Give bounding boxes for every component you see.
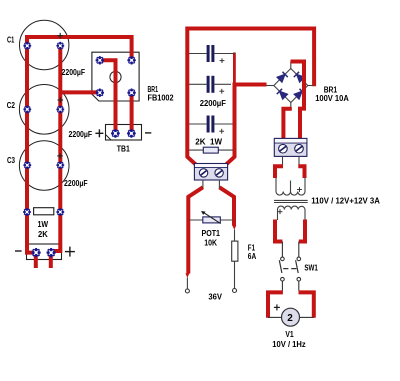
transformer T1 primary xyxy=(276,178,305,196)
svg-text:POT1: POT1 xyxy=(202,229,221,238)
wire: meter left elbow xyxy=(268,292,283,317)
fuse F1 body xyxy=(232,241,238,261)
pad C3 left xyxy=(23,161,31,169)
pad TB1 right xyxy=(127,129,136,138)
svg-text:SW1: SW1 xyxy=(304,263,318,272)
thin wires to switch xyxy=(281,242,283,258)
switch levers xyxy=(279,260,282,273)
svg-text:2200µF: 2200µF xyxy=(69,130,93,139)
polarity + secondary xyxy=(278,209,283,214)
wire tip left xyxy=(185,273,189,277)
terminal block TB1 outline xyxy=(106,125,142,141)
wire: output stub right xyxy=(49,253,53,268)
thin wire resistor xyxy=(189,149,233,151)
stub bottom vertex xyxy=(290,103,292,109)
svg-text:FB1002: FB1002 xyxy=(148,94,175,103)
thin wire fuse feed xyxy=(234,230,236,289)
capacitor C3 outline xyxy=(19,141,69,191)
thin wires to meter xyxy=(268,316,282,318)
wire: diagonal into block right xyxy=(225,156,235,165)
polarity + xyxy=(220,58,225,63)
wire: BR1 bottom-right pad to TB1 right pad xyxy=(130,93,134,134)
polarity + xyxy=(219,129,224,134)
svg-text:2K: 2K xyxy=(38,230,48,239)
wire: left elbow to primary xyxy=(275,166,283,178)
terminal block left (schematic) xyxy=(194,164,227,181)
svg-text:2200µF: 2200µF xyxy=(200,99,226,108)
wire: BR1 top-left pad to TB1 left pad xyxy=(100,60,116,133)
stub right vertex xyxy=(308,85,313,87)
thin wires under block xyxy=(202,180,204,188)
wire: right elbow to primary xyxy=(298,166,304,178)
primary centre tap xyxy=(290,181,292,193)
terminal 36V left xyxy=(185,289,189,293)
potentiometer POT1 body xyxy=(203,217,221,223)
svg-text:10V / 1Hz: 10V / 1Hz xyxy=(272,340,305,349)
capacitor 2200uF top plates xyxy=(207,45,215,62)
diode upper-right xyxy=(294,72,305,83)
svg-text:100V 10A: 100V 10A xyxy=(315,94,349,103)
wire: bridge + output to right block xyxy=(291,62,305,140)
wire: main left rail, top rail, drop to bridge xyxy=(187,29,314,158)
svg-text:2200µF: 2200µF xyxy=(64,179,88,188)
wire: secondary right to switch xyxy=(299,220,305,242)
resistor 2K 1W body xyxy=(203,147,218,153)
bridge diamond outline xyxy=(274,69,308,103)
diode lower-right xyxy=(294,89,305,100)
thin wires under right block xyxy=(282,156,284,165)
pad C1 left xyxy=(23,42,31,50)
stub top vertex xyxy=(290,62,292,69)
wire: meter right elbow xyxy=(299,292,314,317)
bridge rectifier BR1 package outline xyxy=(92,52,139,101)
output terminal block outline xyxy=(27,244,62,260)
diode upper-left xyxy=(277,72,288,83)
wire: diagonal into block left xyxy=(187,156,197,165)
pad resistor left xyxy=(23,208,31,216)
wire tip right xyxy=(232,225,236,229)
svg-text:V1: V1 xyxy=(285,330,294,339)
wire: left rail + top rail to BR1 pin xyxy=(27,37,132,253)
svg-text:10K: 10K xyxy=(204,239,217,248)
pad C2 left xyxy=(23,106,31,114)
polarity + xyxy=(219,89,224,94)
svg-text:C1: C1 xyxy=(7,36,15,45)
meter V1 xyxy=(282,308,300,326)
thin wire cap2 xyxy=(189,83,207,85)
polarity + primary xyxy=(297,187,302,192)
svg-text:C3: C3 xyxy=(7,156,15,165)
pad C3 right xyxy=(56,161,64,169)
switch link (dashed) xyxy=(283,268,296,270)
pad BR1 bottom-right xyxy=(127,88,135,96)
polarity + C1 xyxy=(57,33,63,39)
resistor 1W 2K package xyxy=(34,208,54,215)
pad output left xyxy=(31,248,40,257)
polarity + meter xyxy=(274,304,280,310)
diode lower-left xyxy=(277,89,288,100)
polarity + C2 xyxy=(58,97,64,103)
wire: C2 to BR1 bottom-left pad xyxy=(60,90,100,94)
wire: lower-right flare down to fuse xyxy=(219,187,234,225)
wire: output stub left xyxy=(34,253,38,268)
transformer core xyxy=(274,199,308,201)
transformer T1 secondary xyxy=(278,206,306,220)
thin wire 36V left xyxy=(186,278,188,290)
thin wire pot xyxy=(189,219,233,221)
pad resistor right xyxy=(56,208,64,216)
wire: lower-left flare down to 36V terminal xyxy=(188,187,203,273)
thin wires below switch xyxy=(281,281,283,291)
svg-text:2: 2 xyxy=(287,313,293,324)
wire: thin red link cap1 to cap2 node xyxy=(233,53,236,85)
wire: secondary left to switch xyxy=(275,220,282,242)
wire: right rail C1..C3 to output block xyxy=(51,46,60,253)
svg-text:2200µF: 2200µF xyxy=(62,68,86,77)
svg-text:1W: 1W xyxy=(38,220,49,229)
stub left vertex xyxy=(266,85,274,87)
svg-text:2K 1W: 2K 1W xyxy=(195,137,222,146)
polarity + output xyxy=(65,247,75,257)
svg-text:110V / 12V+12V 3A: 110V / 12V+12V 3A xyxy=(311,197,380,206)
pad C2 right xyxy=(56,106,64,114)
thin wire cap1 xyxy=(189,53,207,55)
thin wire cap3 xyxy=(189,123,207,125)
terminal block right xyxy=(274,138,307,156)
wire: right rail of ladder xyxy=(233,85,237,158)
polarity + C3 xyxy=(57,153,63,159)
svg-text:6A: 6A xyxy=(248,252,257,261)
pad BR1 bottom-left xyxy=(96,88,104,96)
capacitor C1 outline xyxy=(20,20,69,69)
pad BR1 top-right xyxy=(127,56,135,64)
polarity + TB1 xyxy=(95,129,103,137)
pad output right xyxy=(46,248,55,257)
pad BR1 top-left xyxy=(96,56,104,64)
svg-text:36V: 36V xyxy=(208,293,222,302)
wire: bridge - output to left pad of right block xyxy=(283,109,291,139)
svg-text:TB1: TB1 xyxy=(117,145,130,154)
svg-text:C2: C2 xyxy=(7,101,16,110)
pad C1 right xyxy=(56,42,64,50)
wire: node to bridge left vertex xyxy=(233,83,267,87)
capacitor 2200uF mid plates xyxy=(207,76,215,93)
capacitor C2 outline xyxy=(19,85,69,135)
polarity - TB1 xyxy=(145,132,151,134)
switch SW1 xyxy=(281,257,301,281)
pad TB1 left xyxy=(111,129,120,138)
polarity - output xyxy=(15,250,22,252)
terminal 36V right xyxy=(233,289,237,293)
pot arrow xyxy=(204,213,221,224)
capacitor 2200uF bottom plates xyxy=(207,116,215,133)
